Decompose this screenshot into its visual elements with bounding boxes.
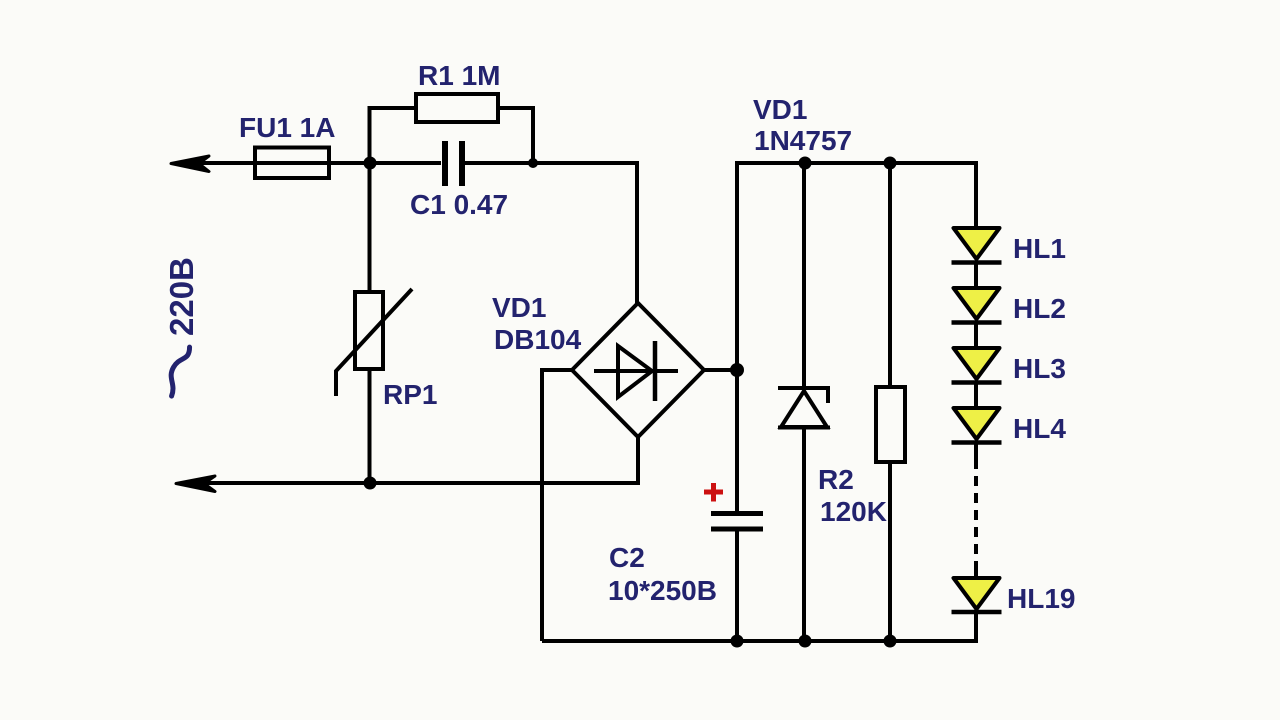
fuse FU1	[255, 148, 329, 179]
wire plus node vertical upper	[735, 161, 739, 513]
svg-text:VD1: VD1	[492, 292, 546, 323]
wire zener branch lower	[802, 427, 806, 641]
wire bridge bottom to AC line	[636, 437, 640, 483]
bridge rectifier VD1 DB104 diamond	[572, 303, 704, 437]
wire RP1 branch upper	[368, 163, 372, 292]
svg-text:220B: 220B	[163, 257, 200, 336]
zener diode VD1 1N4757	[778, 388, 828, 403]
wire top output rail	[737, 161, 978, 165]
node zener bottom junction	[799, 635, 812, 648]
wire R1 branch left riser	[370, 108, 417, 163]
node C2 bottom junction	[731, 635, 744, 648]
wire LED string top	[974, 161, 978, 229]
wire	[974, 322, 978, 349]
wire	[974, 262, 978, 289]
node bridge plus junction	[730, 363, 744, 377]
resistor R1	[416, 94, 498, 122]
node C1/R1 right junction	[528, 158, 538, 168]
arrow top-left input	[171, 156, 209, 172]
bridge inner diode	[594, 369, 678, 373]
wire bottom minus rail	[542, 639, 978, 643]
arrow bottom-left input	[176, 476, 215, 492]
svg-text:RP1: RP1	[383, 379, 437, 410]
svg-text:DB104: DB104	[494, 324, 582, 355]
wire R1 branch right riser	[498, 108, 533, 163]
svg-text:HL3: HL3	[1013, 353, 1066, 384]
LED HL1	[954, 228, 1000, 259]
LED HL2	[954, 288, 1000, 319]
capacitor C2 plates	[711, 511, 763, 516]
wire	[974, 382, 978, 409]
node RP1 bottom junction	[364, 477, 377, 490]
wire bridge left to minus rail	[542, 370, 572, 641]
wire dashed continuation	[974, 459, 978, 572]
node zener top junction	[799, 157, 812, 170]
LED HL4	[954, 408, 1000, 439]
capacitor C1 plates	[442, 141, 448, 186]
wire corner down to bridge top	[635, 161, 639, 306]
wire stub above HL19	[974, 570, 978, 579]
C2 plus polarity mark	[704, 490, 723, 495]
svg-text:1N4757: 1N4757	[754, 125, 852, 156]
wire stub below HL4	[974, 442, 978, 459]
varistor RP1	[355, 292, 383, 369]
svg-text:FU1 1A: FU1 1A	[239, 112, 335, 143]
svg-text:C2: C2	[609, 542, 645, 573]
wire top AC line right segment (C1 right to corner)	[462, 161, 639, 165]
LED HL3	[954, 348, 1000, 379]
wire R2 branch upper	[888, 163, 892, 387]
wire top AC line left segment	[190, 161, 441, 165]
svg-text:R2: R2	[818, 464, 854, 495]
svg-text:HL4: HL4	[1013, 413, 1066, 444]
svg-text:C1 0.47: C1 0.47	[410, 189, 508, 220]
wire zener branch upper	[802, 163, 806, 390]
wire bridge right to plus node	[704, 368, 737, 372]
wire LED string bottom	[974, 612, 978, 643]
svg-text:120K: 120K	[820, 496, 887, 527]
wire RP1 branch lower	[368, 369, 372, 483]
node R2 top junction	[884, 157, 897, 170]
svg-text:HL1: HL1	[1013, 233, 1066, 264]
wire R2 branch lower	[888, 462, 892, 641]
node R2 bottom junction	[884, 635, 897, 648]
svg-text:VD1: VD1	[753, 94, 807, 125]
LED HL19	[954, 578, 1000, 609]
svg-text:HL19: HL19	[1007, 583, 1075, 614]
resistor R2	[876, 387, 905, 462]
svg-text:10*250B: 10*250B	[608, 575, 717, 606]
node fuse/R1/RP1 junction	[364, 157, 377, 170]
wire C2 bottom to minus rail	[735, 529, 739, 641]
svg-text:HL2: HL2	[1013, 293, 1066, 324]
label tilde of 220B	[168, 345, 190, 398]
svg-text:R1 1M: R1 1M	[418, 60, 500, 91]
wire bottom AC line	[198, 481, 640, 485]
